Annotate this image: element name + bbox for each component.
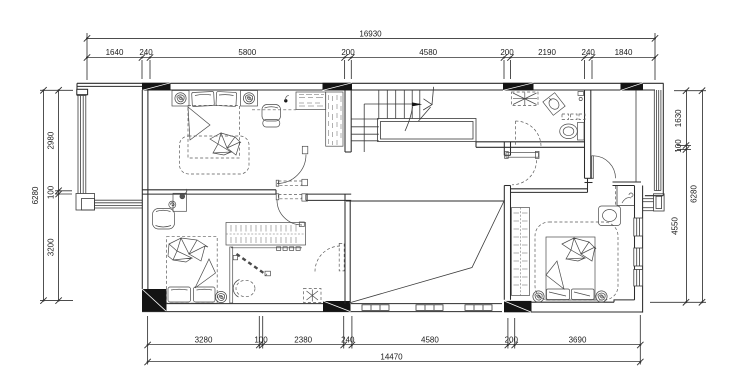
svg-text:240: 240: [582, 48, 596, 57]
stair treads left run: [351, 119, 379, 141]
floor box with cross: [304, 289, 322, 303]
chair: [153, 209, 175, 230]
bathroom bottom wall: [476, 142, 585, 148]
svg-text:6280: 6280: [31, 186, 40, 204]
toilet: [560, 123, 584, 141]
washing machine rotated: [543, 93, 565, 116]
top exterior wall: [77, 83, 664, 95]
bedroom3 door swing lower: [277, 200, 302, 225]
interior wall A (bedroom1 / stair hall): [345, 90, 351, 152]
side table: [599, 206, 621, 226]
sliding door dashed diagonal: [237, 254, 267, 275]
svg-text:14470: 14470: [380, 353, 403, 362]
closet top run: [296, 92, 326, 110]
stool back: [233, 280, 239, 298]
AC platform outside right: [642, 194, 664, 211]
svg-text:200: 200: [505, 335, 519, 344]
void bottom window band: [362, 305, 492, 311]
balcony bottom window: [95, 200, 143, 208]
interior wall B2: [306, 194, 351, 200]
stair direction arrow with break: [405, 87, 434, 131]
top witness lines: [87, 33, 655, 80]
left outer dimension 6280: [31, 87, 47, 304]
column top 1: [142, 83, 171, 91]
svg-text:16930: 16930: [359, 30, 382, 39]
svg-text:2980: 2980: [47, 131, 56, 149]
svg-text:5800: 5800: [238, 48, 256, 57]
left witness lines: [40, 90, 73, 300]
svg-text:240: 240: [139, 48, 153, 57]
bedroom2 corner niche: [617, 186, 634, 206]
sliding window arc dashed: [315, 246, 341, 272]
wardrobe strip: [512, 208, 530, 296]
bedroom2 hall wall: [511, 178, 588, 192]
curtain dashed line: [615, 186, 617, 206]
bed: [546, 237, 595, 300]
balcony corner post: [76, 194, 95, 211]
desk: [173, 193, 187, 211]
top overall dimension line 16930: [84, 30, 658, 42]
rug dashed: [180, 136, 250, 174]
balcony left window: [77, 96, 87, 194]
wall between void/bedroom2: [504, 142, 510, 300]
bottom exterior wall (left and middle): [142, 304, 502, 312]
blanket fold: [195, 259, 216, 288]
terrace door leaf and swing: [592, 156, 616, 179]
column top 2: [323, 83, 353, 91]
wall fixture top right: [578, 92, 584, 101]
svg-text:4580: 4580: [419, 48, 437, 57]
svg-text:4550: 4550: [671, 217, 680, 235]
door jamb block: [302, 146, 308, 154]
void opening walls: [345, 194, 504, 304]
crumpled quilt rotated: [562, 238, 596, 261]
column top 4: [621, 83, 644, 91]
plant at bed corner: [215, 291, 226, 302]
crumpled quilt: [168, 238, 208, 262]
shower tray: [512, 92, 539, 106]
ceiling lamp mark: [284, 99, 287, 102]
bottom-left corner column: [142, 289, 167, 312]
right upper window: [654, 90, 661, 191]
svg-text:1840: 1840: [615, 48, 633, 57]
terrace bottom wall left piece: [585, 178, 593, 182]
bathroom door solid leaf: [505, 151, 539, 158]
crumpled throw on bed: [210, 133, 241, 155]
armchair: [262, 105, 281, 128]
svg-text:3690: 3690: [569, 335, 587, 344]
void diagonal break line: [349, 200, 505, 303]
desk partition: [230, 247, 233, 303]
left exterior wall: [142, 90, 148, 289]
bottom witness lines: [148, 315, 641, 365]
svg-text:3280: 3280: [195, 335, 213, 344]
right witness lines: [650, 91, 706, 303]
svg-text:200: 200: [500, 48, 514, 57]
right inner dimension 1630/100/4550: [671, 88, 690, 306]
right lower wall windows: [634, 218, 643, 286]
interior wall B1 (bedroom1 / bedroom3): [142, 190, 276, 194]
column bottom right: [504, 301, 532, 312]
nightstand right with plant: [241, 91, 258, 107]
pillows: [168, 287, 215, 302]
svg-text:6280: 6280: [690, 185, 699, 203]
stair treads vertical: [379, 90, 420, 119]
svg-text:100: 100: [47, 185, 56, 199]
faucet symbol in niche: [622, 193, 633, 203]
wardrobe bedroom3: [226, 223, 306, 246]
right upper exterior wall: [645, 83, 663, 195]
bedroom1 door leaf upper: [278, 181, 301, 185]
hanging items row: [277, 247, 301, 251]
svg-text:2190: 2190: [538, 48, 556, 57]
bathroom right wall: [585, 90, 591, 178]
bottom overall dimension line 14470: [144, 353, 643, 366]
bathroom door dashed swing up: [516, 121, 542, 147]
bedroom2 top wall: [613, 182, 642, 186]
stair inner rail: [364, 104, 420, 152]
svg-text:240: 240: [341, 335, 355, 344]
svg-text:4580: 4580: [421, 335, 439, 344]
plant left of bed: [533, 291, 544, 302]
wardrobe front edge: [231, 247, 302, 249]
terrace inner line: [635, 90, 637, 182]
closet side run: [326, 92, 343, 146]
vanity dashed boxes: [562, 114, 585, 120]
right outer dimension 6280: [690, 88, 706, 306]
bathroom door dashed leaf vertical: [515, 121, 517, 146]
top segment dimension line: [84, 48, 658, 61]
bottom exterior wall (right bedroom): [531, 300, 643, 312]
bottom segment dimension line: [144, 335, 643, 348]
svg-text:2380: 2380: [294, 335, 312, 344]
swirl ornament on desk: [169, 201, 176, 208]
bathroom door dashed swing down: [512, 160, 537, 185]
svg-text:100: 100: [254, 335, 268, 344]
bed dashed outline: [167, 237, 218, 304]
bedroom3 door leaf lower: [278, 195, 301, 199]
bed: [188, 106, 240, 159]
stool dashed: [236, 280, 255, 296]
column bottom middle: [323, 301, 351, 312]
nightstand left with plant: [172, 91, 189, 107]
stair landing rail: [378, 119, 477, 142]
right lower exterior wall: [635, 186, 643, 313]
bed base line: [167, 302, 218, 304]
svg-text:200: 200: [341, 48, 355, 57]
left inner dimension 2980/100/3200: [47, 87, 62, 304]
bedroom1 door swing upper: [277, 155, 306, 184]
swirl ornament top: [180, 189, 187, 199]
sliding window leaf dashed on void wall: [339, 243, 344, 271]
closet dashed projection line: [252, 109, 296, 111]
svg-text:1640: 1640: [106, 48, 124, 57]
plant right of bed: [596, 291, 607, 302]
svg-text:3200: 3200: [47, 238, 56, 256]
rug dashed: [535, 222, 618, 300]
column top 3: [503, 83, 534, 91]
svg-text:1630: 1630: [674, 109, 683, 127]
